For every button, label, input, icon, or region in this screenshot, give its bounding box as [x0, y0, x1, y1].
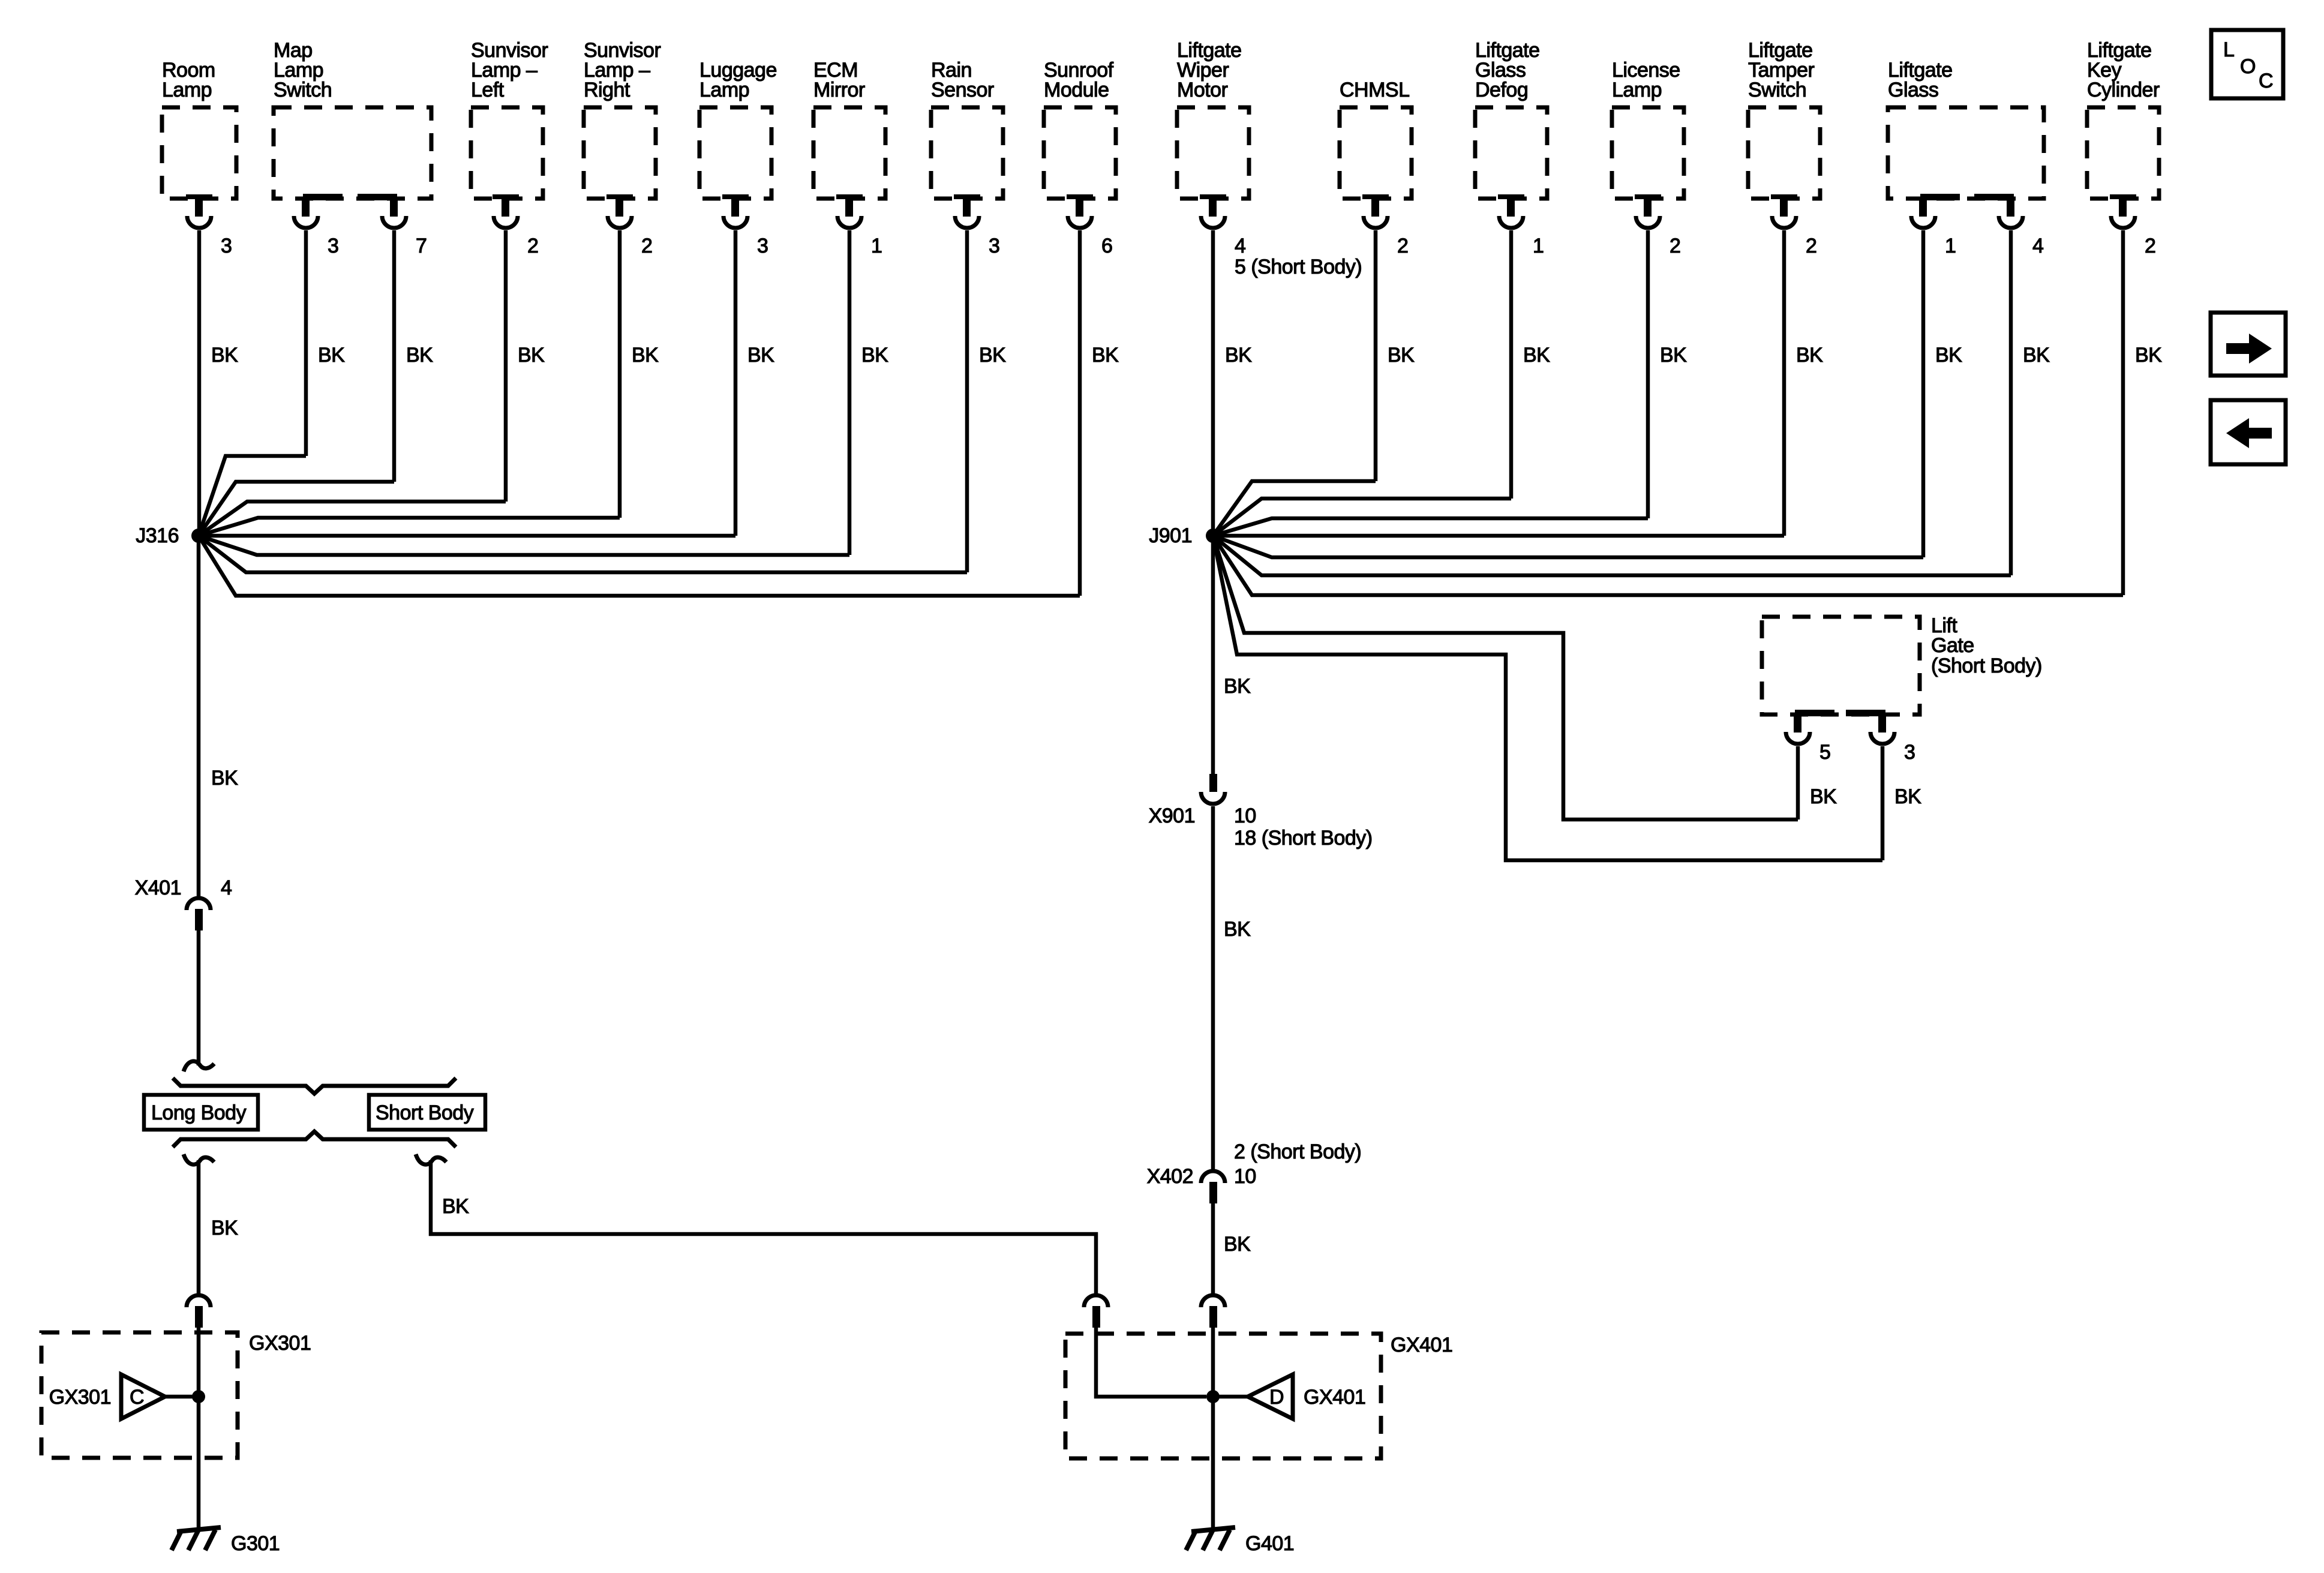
node GX401 junction	[1206, 1390, 1220, 1403]
svg-text:BK: BK	[2135, 344, 2162, 367]
svg-text:BK: BK	[1388, 344, 1415, 367]
svg-text:2: 2	[1806, 235, 1816, 257]
node GX301 junction	[192, 1390, 205, 1403]
connector X402	[1201, 1171, 1225, 1183]
svg-text:2: 2	[1397, 235, 1408, 257]
pin 2 of Liftgate Tamper Switch	[1771, 194, 1797, 199]
svg-text:D: D	[1269, 1386, 1284, 1409]
component Rain Sensor	[931, 107, 1003, 199]
wire J316 fan	[199, 534, 735, 538]
svg-text:2: 2	[2145, 235, 2155, 257]
component CHMSL	[1340, 107, 1412, 199]
svg-text:X402: X402	[1147, 1165, 1193, 1188]
svg-text:Long Body: Long Body	[151, 1101, 247, 1124]
svg-text:BK: BK	[1224, 1233, 1251, 1256]
svg-text:7: 7	[416, 235, 427, 257]
pin 1 of Liftgate Glass	[1920, 194, 1960, 200]
wire X901 to X402	[1211, 806, 1215, 1170]
harness break hook long body	[184, 1154, 214, 1164]
label Long Body	[144, 1095, 258, 1130]
svg-text:BK: BK	[1935, 344, 1962, 367]
svg-text:Left: Left	[471, 79, 505, 101]
connector X401	[187, 898, 211, 910]
icon arrow left	[2248, 428, 2272, 439]
svg-text:X401: X401	[135, 876, 181, 899]
svg-text:6: 6	[1101, 235, 1112, 257]
wire drop from Rain Sensor pin 3	[965, 230, 969, 572]
component Liftgate Glass	[1888, 107, 2044, 199]
svg-text:BK: BK	[861, 344, 888, 367]
pin 2 of License Lamp	[1635, 194, 1661, 199]
component ECM Mirror	[813, 107, 885, 199]
pin 7 of Map Lamp Switch	[358, 194, 397, 200]
wire drop from Sunvisor Lamp Right pin 2	[618, 230, 622, 518]
wire into GX401 from short body	[1096, 1328, 1206, 1397]
wire into GX301	[197, 1328, 201, 1397]
wire J901 fan	[1213, 536, 1923, 557]
wire J901 to Lift Gate pin 5	[1213, 536, 1798, 819]
svg-text:Mirror: Mirror	[813, 79, 865, 101]
wire drop from Room Lamp pin 3	[197, 230, 202, 536]
svg-text:J901: J901	[1149, 524, 1192, 547]
svg-text:Module: Module	[1044, 79, 1109, 101]
wire drop from Liftgate Glass pin 4	[2009, 230, 2013, 575]
legend arrow left box	[2211, 400, 2286, 464]
svg-text:Switch: Switch	[1748, 79, 1806, 101]
svg-text:C: C	[130, 1386, 144, 1409]
connector into GX301	[187, 1295, 211, 1307]
wire J901 fan	[1213, 534, 1784, 538]
svg-text:1: 1	[871, 235, 882, 257]
wire J901 down to X901	[1211, 536, 1215, 775]
wire J901 fan	[1213, 518, 1648, 536]
wire drop from Liftgate Glass pin 1	[1921, 230, 1926, 557]
svg-text:Lamp: Lamp	[162, 79, 212, 101]
svg-text:4: 4	[2032, 235, 2043, 257]
svg-text:C: C	[2259, 70, 2273, 92]
harness break hook	[184, 1061, 214, 1071]
svg-text:Lamp: Lamp	[699, 79, 749, 101]
component License Lamp	[1612, 107, 1684, 199]
pin 3 of Map Lamp Switch	[303, 194, 343, 200]
component Map Lamp Switch	[274, 107, 431, 199]
svg-text:Defog: Defog	[1475, 79, 1528, 101]
connector into GX401 (short body branch)	[1084, 1295, 1108, 1307]
svg-text:BK: BK	[1660, 344, 1687, 367]
wire J901 fan	[1213, 536, 2011, 575]
svg-text:GX301: GX301	[49, 1386, 111, 1409]
wire drop from Liftgate Wiper Motor pin 4	[1211, 230, 1215, 536]
component Sunroof Module	[1044, 107, 1116, 199]
svg-text:Glass: Glass	[1888, 79, 1938, 101]
wire drop from License Lamp pin 2	[1646, 230, 1650, 518]
svg-text:BK: BK	[1796, 344, 1823, 367]
svg-text:CHMSL: CHMSL	[1340, 79, 1410, 101]
svg-text:Cylinder: Cylinder	[2087, 79, 2160, 101]
ground G401	[1191, 1527, 1235, 1532]
svg-text:BK: BK	[1523, 344, 1550, 367]
harness brace upper	[173, 1078, 456, 1094]
svg-text:BK: BK	[1092, 344, 1119, 367]
svg-text:BK: BK	[979, 344, 1006, 367]
svg-text:2: 2	[641, 235, 652, 257]
connector X901	[1209, 774, 1217, 792]
ground reference triangle D GX401	[1248, 1374, 1293, 1419]
svg-text:10: 10	[1234, 1165, 1256, 1188]
wire drop from Map Lamp Switch pin 7	[392, 230, 397, 482]
wire J316 fan	[199, 536, 967, 572]
svg-text:1: 1	[1945, 235, 1956, 257]
svg-text:BK: BK	[747, 344, 774, 367]
svg-text:Sensor: Sensor	[931, 79, 994, 101]
svg-text:3: 3	[1904, 741, 1915, 764]
wire drop from Liftgate Glass Defog pin 1	[1509, 230, 1514, 499]
svg-text:BK: BK	[2023, 344, 2050, 367]
harness brace lower	[173, 1131, 456, 1147]
pin 6 of Sunroof Module	[1067, 194, 1093, 199]
wire J316 fan	[199, 536, 1080, 596]
svg-text:Switch: Switch	[274, 79, 332, 101]
wire J316 fan	[199, 456, 306, 536]
wire J316 fan	[199, 502, 506, 536]
wire drop from Map Lamp Switch pin 3	[304, 230, 308, 456]
connector into GX401 (main)	[1201, 1295, 1225, 1307]
svg-text:BK: BK	[1224, 918, 1251, 941]
wire drop from Sunroof Module pin 6	[1078, 230, 1082, 596]
svg-text:1: 1	[1533, 235, 1544, 257]
svg-text:4: 4	[221, 876, 232, 899]
legend arrow right box	[2211, 313, 2286, 376]
wire drop	[1881, 746, 1885, 860]
svg-text:2: 2	[527, 235, 538, 257]
label Short Body	[369, 1095, 485, 1130]
wire J316 down to X401	[197, 536, 201, 897]
svg-text:BK: BK	[442, 1195, 469, 1218]
wire to triangle D	[1213, 1395, 1248, 1399]
wire into GX401	[1211, 1328, 1215, 1397]
svg-text:Right: Right	[584, 79, 630, 101]
svg-text:O: O	[2240, 55, 2256, 78]
wire drop from CHMSL pin 2	[1374, 230, 1378, 481]
svg-text:GX401: GX401	[1304, 1386, 1365, 1409]
wire to triangle C	[165, 1395, 199, 1399]
svg-text:Short Body: Short Body	[376, 1101, 474, 1124]
svg-text:3: 3	[328, 235, 338, 257]
wire J901 to Lift Gate pin 3	[1213, 536, 1882, 860]
pin 3 of Lift Gate (Short Body)	[1846, 710, 1885, 716]
wire GX301 to G301	[197, 1397, 201, 1530]
component Luggage Lamp	[699, 107, 771, 199]
pin 4 of Liftgate Wiper Motor	[1200, 194, 1226, 199]
svg-text:BK: BK	[1225, 344, 1252, 367]
wire drop from Liftgate Tamper Switch pin 2	[1782, 230, 1786, 536]
pin 3 of Rain Sensor	[954, 194, 980, 199]
svg-text:3: 3	[757, 235, 768, 257]
wire Short Body branch	[431, 1160, 1096, 1294]
wire drop	[1796, 746, 1800, 819]
svg-text:X901: X901	[1149, 804, 1195, 827]
wire J901 fan	[1213, 499, 1511, 536]
component Liftgate Glass Defog	[1475, 107, 1547, 199]
svg-text:18 (Short Body): 18 (Short Body)	[1234, 827, 1373, 849]
wire drop from Sunvisor Lamp Left pin 2	[504, 230, 508, 502]
wire J316 fan	[199, 482, 394, 536]
component Sunvisor Lamp Left	[471, 107, 543, 199]
svg-text:BK: BK	[1810, 785, 1837, 808]
svg-text:G301: G301	[231, 1532, 280, 1555]
svg-text:BK: BK	[406, 344, 433, 367]
svg-text:Gate: Gate	[1931, 634, 1974, 657]
wire drop from Liftgate Key Cylinder pin 2	[2121, 230, 2125, 595]
pin 3 of Luggage Lamp	[722, 194, 749, 199]
svg-text:G401: G401	[1245, 1532, 1294, 1555]
component Room Lamp	[162, 107, 236, 199]
ground reference triangle C GX301	[121, 1374, 165, 1419]
icon arrow right	[2226, 343, 2250, 354]
svg-text:BK: BK	[211, 1217, 238, 1239]
svg-text:BK: BK	[318, 344, 345, 367]
component Lift Gate (Short Body)	[1762, 617, 1920, 715]
svg-text:GX301: GX301	[249, 1332, 311, 1355]
pin 2 of CHMSL	[1362, 194, 1389, 199]
ground G301	[177, 1527, 221, 1532]
junction J901	[1206, 529, 1220, 543]
wire X402 to GX401	[1211, 1203, 1215, 1294]
wire J901 fan	[1213, 536, 2123, 595]
pin 1 of ECM Mirror	[836, 194, 863, 199]
pin 2 of Sunvisor Lamp Left	[493, 194, 519, 199]
svg-text:Lamp: Lamp	[1612, 79, 1662, 101]
component Liftgate Wiper Motor	[1177, 107, 1249, 199]
component Liftgate Tamper Switch	[1748, 107, 1820, 199]
svg-text:BK: BK	[632, 344, 659, 367]
pin 1 of Liftgate Glass Defog	[1498, 194, 1524, 199]
svg-text:GX401: GX401	[1391, 1334, 1452, 1356]
svg-text:4: 4	[1235, 235, 1245, 257]
wire J316 fan	[199, 536, 849, 555]
wire drop from Luggage Lamp pin 3	[734, 230, 738, 536]
svg-text:BK: BK	[211, 767, 238, 789]
svg-text:Motor: Motor	[1177, 79, 1228, 101]
svg-text:J316: J316	[136, 524, 179, 547]
svg-text:10: 10	[1234, 804, 1256, 827]
svg-text:5: 5	[1819, 741, 1830, 764]
ground distribution GX401 box	[1065, 1334, 1381, 1458]
pin 5 of Lift Gate (Short Body)	[1795, 710, 1834, 716]
svg-text:2: 2	[1670, 235, 1680, 257]
wire J901 fan	[1213, 481, 1376, 536]
svg-text:(Short Body): (Short Body)	[1931, 655, 2042, 677]
wire drop from ECM Mirror pin 1	[848, 230, 852, 555]
svg-text:BK: BK	[211, 344, 238, 367]
svg-text:BK: BK	[1894, 785, 1921, 808]
wire GX401 to G401	[1211, 1397, 1215, 1530]
svg-text:5 (Short Body): 5 (Short Body)	[1235, 256, 1362, 278]
legend LOC box	[2211, 30, 2283, 98]
svg-text:2 (Short Body): 2 (Short Body)	[1234, 1140, 1361, 1163]
component Sunvisor Lamp Right	[584, 107, 656, 199]
svg-text:L: L	[2223, 38, 2234, 61]
component Liftgate Key Cylinder	[2087, 107, 2159, 199]
svg-text:3: 3	[221, 235, 232, 257]
wire Long Body branch	[197, 1160, 201, 1294]
pin 3 of Room Lamp	[186, 194, 212, 199]
svg-text:3: 3	[989, 235, 999, 257]
junction J316	[191, 529, 206, 543]
svg-text:BK: BK	[1224, 675, 1251, 698]
pin 2 of Liftgate Key Cylinder	[2110, 194, 2136, 199]
pin 2 of Sunvisor Lamp Right	[606, 194, 633, 199]
ground distribution GX301 box	[41, 1332, 238, 1458]
pin 4 of Liftgate Glass	[1974, 194, 2014, 200]
harness break hook short body	[416, 1154, 446, 1164]
svg-text:BK: BK	[518, 344, 545, 367]
wire J316 fan	[199, 518, 620, 536]
wire X401 down to harness break	[197, 930, 201, 1065]
